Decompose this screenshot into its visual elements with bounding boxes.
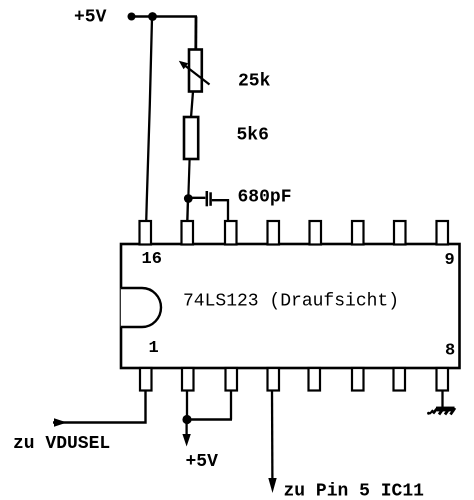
wire capacitor to pin 14 [212,200,228,222]
svg-text:zu VDUSEL: zu VDUSEL [13,434,110,454]
wire pin 3 down [230,391,232,420]
svg-text:74LS123 (Draufsicht): 74LS123 (Draufsicht) [183,292,399,312]
pin 11 (top) [352,221,364,245]
pin 10 (top) [394,221,406,245]
pin 4 (bottom) [268,368,280,391]
pin 1 (bottom) [140,368,152,391]
wire joining pins 2 and 3 [186,418,232,420]
junction node on +5V rail [148,12,157,21]
wire pin 4 down to IC11 [271,391,274,481]
svg-text:9: 9 [445,251,455,270]
svg-text:16: 16 [142,250,162,269]
arrow down to +5V [182,434,190,447]
svg-text:zu Pin 5 IC11: zu Pin 5 IC11 [284,482,425,500]
resistor R2 5k6 body [184,117,198,159]
svg-text:25k: 25k [238,72,271,92]
capacitor C1 680pF [188,197,205,199]
junction node pins 2/3 [182,415,191,424]
wire from +5V junction down to pin 16 [146,18,152,222]
pin 12 (top) [310,221,322,245]
pin 14 (top) [225,221,237,245]
pin 2 (bottom) [182,368,194,391]
wire pin 2 down to +5V junction [186,391,188,420]
wire junction down to pin 15 [186,199,189,223]
wire resistor 5k6 down to junction [188,159,189,199]
pin 5 (bottom) [309,368,321,391]
pin 9 (top) [437,221,449,245]
arrow down to zu Pin 5 IC11 [268,478,276,493]
pin 6 (bottom) [352,368,364,391]
ground (hatched earth symbol) [427,407,455,415]
wire pin 1 down and left to VDUSEL [53,391,146,423]
pin 15 (top) [182,221,194,245]
pin 3 (bottom) [226,368,238,391]
node dot at left end of +5V rail [128,13,136,21]
wire potentiometer to resistor 5k6 [191,92,193,118]
arrow into pin 1 wire (points right) [54,418,67,426]
pin 8 (bottom) [437,368,449,391]
svg-text:+5V: +5V [186,452,219,472]
wire junction down to +5V arrow [185,420,187,437]
svg-text:1: 1 [149,339,159,358]
junction node resistor/capacitor/pin15 [184,194,193,203]
svg-text:+5V: +5V [74,8,107,28]
IC pin-1 notch (D shape) [121,288,161,327]
wire from +5V rail down to potentiometer [194,17,197,50]
svg-text:5k6: 5k6 [237,126,269,146]
pin 13 (top) [268,221,280,245]
IC U1 74LS123 body [121,244,460,368]
svg-text:680pF: 680pF [238,188,292,208]
potentiometer R1 wiper arrow [185,66,210,85]
svg-text:8: 8 [445,342,455,361]
wire +5V rail horizontal [128,15,197,18]
pin 7 (bottom) [394,368,406,391]
wire pin 8 down to ground [441,391,443,409]
pin 16 (top) [140,221,152,245]
potentiometer R1 25k body [189,50,202,92]
